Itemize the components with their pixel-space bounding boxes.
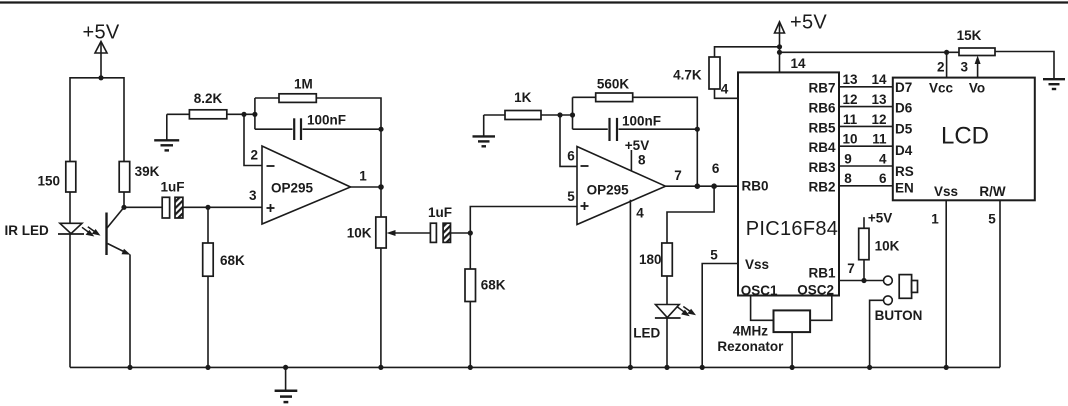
svg-text:9: 9 — [844, 151, 852, 166]
svg-text:+5V: +5V — [82, 22, 119, 44]
svg-text:5: 5 — [567, 189, 575, 204]
wire node A to C3 — [255, 128, 293, 130]
wire 68K second to ground rail — [469, 302, 471, 368]
svg-text:BUTON: BUTON — [875, 308, 923, 323]
svg-text:+5V: +5V — [625, 138, 649, 153]
junction rail resonator — [790, 365, 795, 370]
svg-text:RB4: RB4 — [808, 140, 835, 155]
wire PIC Vss pin5 to ground rail — [702, 264, 738, 368]
svg-text:39K: 39K — [135, 164, 160, 179]
svg-text:4: 4 — [721, 82, 729, 97]
svg-text:1uF: 1uF — [428, 205, 452, 220]
wire 150 to IR LED anode — [69, 192, 71, 223]
wire 15K to ground right — [995, 52, 1054, 79]
wire node B to C4 — [573, 128, 608, 130]
wire 4.7K top to +5V rail — [715, 47, 781, 57]
svg-text:1: 1 — [931, 212, 939, 227]
junction +5V to 4.7K — [777, 44, 782, 49]
wire U2 output pin7 to PIC RB0 — [666, 185, 739, 187]
svg-text:8: 8 — [638, 153, 646, 168]
junction rail U2 pin4 — [628, 365, 633, 370]
svg-text:13: 13 — [842, 72, 858, 87]
wire 180 to LED — [666, 276, 668, 305]
wire data bus D4 — [839, 145, 893, 147]
svg-text:11: 11 — [843, 112, 858, 127]
wire U2 pin4 to ground rail — [629, 200, 631, 368]
svg-text:6: 6 — [712, 161, 720, 176]
svg-text:+5V: +5V — [868, 211, 892, 226]
resistor 68K (second) — [465, 269, 476, 302]
svg-text:12: 12 — [842, 92, 857, 107]
IR emission arrows — [82, 227, 101, 237]
minus sign U1 — [267, 165, 275, 167]
wire 10K to RB1 node — [863, 260, 865, 281]
svg-text:Vss: Vss — [745, 257, 769, 272]
wire ground to 1K — [484, 114, 505, 116]
junction U1 output — [378, 184, 384, 190]
svg-text:4: 4 — [879, 151, 887, 166]
svg-text:150: 150 — [37, 174, 60, 189]
wire RB1 stub — [839, 280, 884, 282]
wire node B vertical branch — [572, 97, 574, 129]
wire U1 output pin1 — [351, 186, 382, 188]
wire RS line — [839, 165, 893, 167]
wire C3 to output node — [303, 128, 382, 130]
svg-text:PIC16F84: PIC16F84 — [746, 218, 838, 240]
junction U2 output — [695, 183, 701, 189]
wire EN line — [839, 185, 893, 187]
svg-text:OSC2: OSC2 — [797, 282, 834, 297]
resistor 68K (first) — [203, 243, 214, 276]
top border line — [0, 1, 1068, 3]
svg-text:D7: D7 — [895, 80, 912, 95]
junction C3 right — [378, 127, 383, 132]
svg-text:4: 4 — [636, 206, 644, 221]
junction at +5V tap — [98, 75, 103, 80]
svg-text:Vo: Vo — [969, 80, 985, 95]
wire node B to 560K — [573, 96, 596, 98]
svg-text:EN: EN — [895, 180, 914, 195]
LCD module box — [893, 78, 1035, 201]
wire +5V to 15K pot — [780, 51, 960, 53]
svg-text:6: 6 — [879, 171, 887, 186]
svg-text:5: 5 — [710, 248, 718, 263]
svg-text:68K: 68K — [220, 253, 245, 268]
wire node A to 1M — [255, 97, 279, 99]
wire 8.2K to node A — [227, 113, 255, 115]
wire 4.7K bottom to PIC pin4 — [715, 89, 739, 98]
potentiometer 10K — [376, 217, 386, 248]
junction rail PIC Vss — [700, 365, 705, 370]
junction rail 68K second — [468, 365, 473, 370]
svg-text:14: 14 — [871, 72, 887, 87]
wire C4 to U2 output node — [619, 128, 698, 130]
svg-text:11: 11 — [872, 132, 887, 147]
wire node C to 68K second — [469, 233, 471, 269]
wire IR LED cathode to ground rail — [69, 234, 71, 367]
svg-text:Rezonator: Rezonator — [717, 339, 784, 354]
wire 1M to output node — [316, 98, 381, 217]
resistor 10K pull-up — [859, 228, 869, 259]
LED emission arrows — [678, 307, 697, 317]
svg-text:8.2K: 8.2K — [194, 91, 223, 106]
svg-text:180: 180 — [639, 252, 662, 267]
microcontroller PIC16F84 — [738, 72, 839, 295]
wire LED branch to 180 — [667, 186, 714, 243]
capacitor C2 1uF — [430, 223, 450, 242]
junction +5V to LCD — [777, 50, 782, 55]
ground symbol (under 8.2K) — [154, 114, 179, 150]
junction rail 68K first — [205, 365, 210, 370]
wire ground to 8.2K — [167, 113, 190, 115]
svg-text:6: 6 — [567, 149, 575, 164]
svg-text:RB0: RB0 — [742, 179, 769, 194]
svg-text:15K: 15K — [957, 28, 982, 43]
junction node B right — [570, 112, 575, 117]
svg-text:2: 2 — [250, 148, 258, 163]
svg-text:7: 7 — [847, 261, 855, 276]
svg-text:3: 3 — [249, 188, 257, 203]
op-amp U2 OP295 — [577, 147, 666, 225]
svg-text:IR LED: IR LED — [5, 223, 50, 238]
wire OSC1 — [751, 296, 774, 321]
junction 68K top — [205, 205, 210, 210]
wire ground rail — [70, 366, 1000, 368]
wire LCD Vss pin1 to ground rail — [945, 200, 947, 367]
plus sign U2 — [581, 202, 589, 210]
svg-text:RB5: RB5 — [808, 120, 835, 135]
svg-text:4MHz: 4MHz — [733, 324, 769, 339]
wire node to 68K — [207, 207, 209, 243]
wire 68K to ground rail — [207, 276, 209, 367]
power symbol +5V (top right) — [775, 22, 785, 73]
junction node C — [468, 230, 473, 235]
resistor 150 — [66, 162, 76, 193]
wire C1 to op-amp U1 pin3 — [183, 206, 262, 208]
svg-text:1M: 1M — [294, 76, 313, 91]
op-amp U1 OP295 — [262, 146, 351, 224]
svg-text:14: 14 — [790, 56, 806, 71]
junction collector node — [121, 205, 126, 210]
potentiometer 15K — [959, 48, 995, 56]
wire data bus D5 — [839, 125, 893, 127]
svg-text:OP295: OP295 — [271, 180, 314, 195]
wire 1K to node B — [541, 114, 573, 116]
junction node A right — [252, 112, 257, 117]
svg-text:LED: LED — [633, 326, 660, 341]
junction LED branch — [711, 183, 717, 189]
svg-text:10K: 10K — [875, 239, 900, 254]
resistor 1M — [279, 94, 316, 103]
svg-text:8: 8 — [844, 171, 852, 186]
capacitor C1 1uF — [162, 197, 183, 218]
svg-text:+5V: +5V — [790, 12, 827, 34]
svg-text:RB1: RB1 — [808, 266, 835, 281]
resistor 39K — [119, 162, 130, 193]
wire U2 pin8 supply — [630, 150, 632, 171]
wire node A to U1 pin2 — [244, 114, 262, 165]
svg-text:100nF: 100nF — [622, 114, 661, 129]
svg-text:68K: 68K — [481, 278, 506, 293]
svg-text:10K: 10K — [347, 226, 372, 241]
capacitor C3 100nF — [294, 118, 301, 140]
wire OSC2 — [810, 296, 832, 321]
svg-text:1uF: 1uF — [160, 180, 184, 195]
wire node C to U2 pin5 — [470, 207, 577, 234]
svg-text:10: 10 — [842, 132, 857, 147]
svg-text:R/W: R/W — [979, 184, 1006, 199]
junction RB1 node — [861, 278, 866, 283]
wire pot bottom to ground rail — [380, 248, 382, 367]
junction Vcc tap — [944, 50, 949, 55]
wire LED cathode to ground rail — [666, 318, 668, 367]
svg-text:OSC1: OSC1 — [741, 283, 778, 298]
svg-text:D4: D4 — [895, 143, 913, 158]
svg-text:LCD: LCD — [941, 123, 989, 150]
resistor 1K — [505, 111, 541, 120]
wire 560K to U2 output node — [633, 97, 698, 186]
svg-text:RB7: RB7 — [808, 81, 835, 96]
svg-text:OP295: OP295 — [587, 183, 630, 198]
junction rail emitter — [127, 365, 132, 370]
wire data bus D6 — [839, 106, 893, 108]
wire collector node to C1 — [124, 206, 162, 208]
power symbol +5V (left) — [95, 42, 107, 78]
svg-text:D6: D6 — [895, 101, 913, 116]
wire emitter to ground rail — [129, 255, 131, 368]
wire data bus D7 — [839, 86, 893, 88]
wire top-left supply rail — [70, 78, 124, 162]
LED indicator diode — [655, 305, 681, 319]
wire resonator to ground rail — [791, 332, 793, 367]
svg-text:5: 5 — [988, 212, 996, 227]
svg-text:RS: RS — [895, 164, 914, 179]
wire C2 to node C — [451, 232, 471, 234]
pushbutton BUTON — [884, 275, 918, 305]
svg-text:12: 12 — [871, 112, 886, 127]
ground symbol (under 1K) — [473, 115, 496, 146]
wire LCD R/W pin5 to ground rail — [999, 200, 1001, 367]
pot 10K wiper arrow — [387, 230, 431, 236]
wire 10K top stub — [863, 217, 865, 228]
junction node B — [557, 112, 562, 117]
ground symbol (right) — [1043, 79, 1065, 89]
minus sign U2 — [581, 165, 589, 167]
wire node A vertical branch — [254, 98, 256, 129]
svg-text:2: 2 — [937, 60, 945, 75]
resistor 8.2K — [189, 110, 226, 119]
svg-text:100nF: 100nF — [307, 113, 346, 128]
junction rail LCD Vss — [944, 365, 949, 370]
wire node B to U2 pin6 — [560, 115, 577, 166]
junction node A — [241, 112, 246, 117]
svg-text:D5: D5 — [895, 122, 913, 137]
svg-text:RB3: RB3 — [808, 160, 835, 175]
svg-text:7: 7 — [674, 168, 682, 183]
IR LED diode — [58, 223, 84, 234]
junction rail button — [867, 365, 872, 370]
svg-text:Vcc: Vcc — [929, 80, 954, 95]
svg-text:1: 1 — [359, 168, 367, 183]
ground symbol (center) — [275, 367, 298, 402]
wire button to ground rail — [870, 300, 884, 367]
plus sign U1 — [267, 204, 275, 212]
resistor 180 — [662, 243, 673, 276]
svg-text:4.7K: 4.7K — [673, 68, 702, 83]
pot 15K wiper arrow to Vo — [975, 56, 981, 78]
capacitor C4 100nF — [610, 118, 618, 141]
svg-text:RB2: RB2 — [808, 180, 835, 195]
svg-text:13: 13 — [871, 92, 887, 107]
wire 39K to collector node — [123, 192, 125, 207]
svg-text:Vss: Vss — [934, 184, 958, 199]
junction rail ground stem — [283, 365, 288, 370]
resonator 4MHz — [774, 310, 811, 332]
resistor 560K — [596, 93, 633, 102]
junction C4 right — [695, 127, 700, 132]
phototransistor Q1 — [107, 207, 131, 255]
resistor 4.7K — [709, 57, 720, 89]
wire LCD Vcc pin2 — [946, 52, 948, 77]
svg-text:3: 3 — [960, 60, 968, 75]
svg-text:RB6: RB6 — [808, 101, 835, 116]
svg-text:1K: 1K — [514, 90, 532, 105]
svg-text:560K: 560K — [597, 76, 630, 91]
junction rail pot 10K — [378, 365, 383, 370]
junction rail LED — [664, 365, 669, 370]
